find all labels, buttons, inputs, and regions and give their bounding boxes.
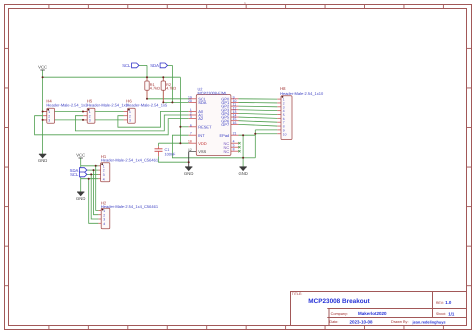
svg-text:20: 20 [188, 99, 192, 103]
svg-text:jean.redelinghuys: jean.redelinghuys [412, 319, 446, 324]
svg-text:REV:: REV: [436, 301, 444, 305]
svg-text:1/1: 1/1 [448, 311, 455, 316]
svg-text:GND: GND [38, 158, 47, 163]
svg-text:GND: GND [184, 171, 193, 176]
svg-text:TITLE:: TITLE: [292, 292, 303, 296]
svg-text:8: 8 [233, 148, 235, 152]
svg-text:Header-Male-2.54_1x4_C56461: Header-Male-2.54_1x4_C56461 [101, 204, 159, 209]
svg-text:7: 7 [190, 132, 192, 136]
svg-text:2023-10-08: 2023-10-08 [350, 319, 374, 324]
svg-text:6: 6 [190, 123, 192, 127]
svg-text:GP7: GP7 [221, 122, 230, 127]
svg-text:GND: GND [76, 196, 85, 201]
svg-text:Header-Male-2.54_1x4_C56461: Header-Male-2.54_1x4_C56461 [101, 157, 159, 162]
svg-text:SDA: SDA [198, 100, 207, 105]
svg-text:21: 21 [233, 132, 237, 136]
svg-text:100nF: 100nF [165, 152, 176, 156]
svg-text:3: 3 [190, 115, 192, 119]
svg-text:Makerlot2020: Makerlot2020 [358, 311, 387, 316]
svg-text:10: 10 [283, 132, 287, 136]
svg-text:Header-Male-2.54_1x3: Header-Male-2.54_1x3 [87, 103, 129, 108]
svg-text:Header-Male-2.54_1x5: Header-Male-2.54_1x5 [126, 103, 168, 108]
svg-text:EPad: EPad [220, 133, 230, 138]
svg-text:3: 3 [129, 119, 131, 123]
svg-text:MCP23008-E/ML: MCP23008-E/ML [198, 90, 229, 95]
svg-text:SCL: SCL [122, 63, 131, 68]
svg-text:VCC: VCC [76, 152, 85, 157]
svg-text:18: 18 [188, 140, 192, 144]
svg-text:Drawn By:: Drawn By: [391, 320, 409, 324]
svg-text:Company:: Company: [331, 312, 348, 316]
svg-text:VDD: VDD [198, 141, 207, 146]
svg-text:4.7kΩ: 4.7kΩ [150, 87, 160, 91]
svg-text:GND: GND [238, 171, 247, 176]
svg-text:SCL: SCL [70, 172, 79, 177]
svg-text:12: 12 [188, 148, 192, 152]
svg-text:A2: A2 [198, 116, 204, 121]
svg-text:VSS: VSS [198, 149, 206, 154]
svg-text:NC: NC [224, 149, 230, 154]
svg-text:Sheet:: Sheet: [436, 312, 446, 316]
svg-text:RESET: RESET [198, 124, 212, 129]
svg-text:VCC: VCC [38, 64, 47, 69]
svg-text:INT: INT [198, 133, 205, 138]
svg-text:SDA: SDA [150, 63, 159, 68]
svg-text:4.7kΩ: 4.7kΩ [166, 87, 176, 91]
svg-text:1.0: 1.0 [445, 300, 452, 305]
svg-text:Header-Male-2.54_1x3: Header-Male-2.54_1x3 [46, 103, 88, 108]
svg-text:Date:: Date: [329, 320, 338, 324]
svg-text:16: 16 [233, 121, 237, 125]
svg-text:Header-Male-2.54_1x10: Header-Male-2.54_1x10 [280, 91, 324, 96]
svg-text:3: 3 [89, 119, 91, 123]
svg-text:4: 4 [103, 177, 105, 181]
svg-text:4: 4 [103, 222, 105, 226]
svg-text:3: 3 [48, 119, 50, 123]
svg-text:MCP23008 Breakout: MCP23008 Breakout [308, 298, 370, 305]
